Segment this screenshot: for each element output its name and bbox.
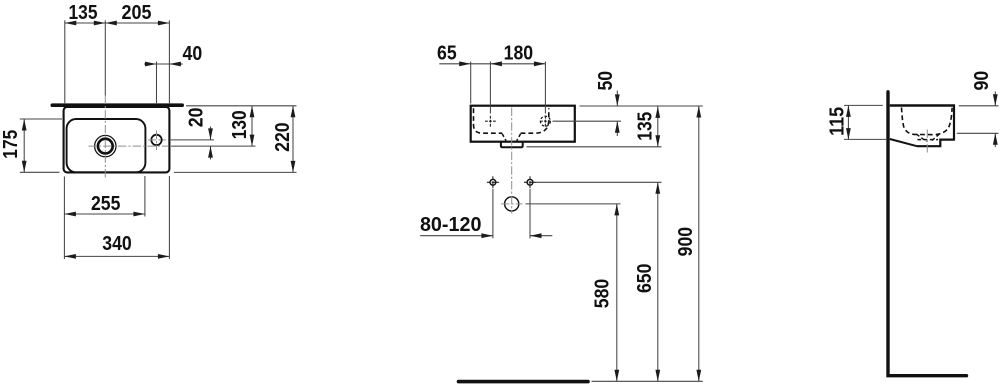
svg-text:255: 255 <box>91 192 121 215</box>
svg-text:340: 340 <box>102 232 132 255</box>
svg-text:80-120: 80-120 <box>420 213 482 236</box>
svg-text:220: 220 <box>271 122 294 152</box>
svg-text:175: 175 <box>0 130 22 159</box>
svg-text:205: 205 <box>122 1 152 24</box>
svg-text:20: 20 <box>184 108 207 128</box>
svg-text:50: 50 <box>594 71 617 91</box>
svg-text:135: 135 <box>69 1 98 24</box>
svg-text:130: 130 <box>228 110 251 139</box>
svg-text:135: 135 <box>634 112 657 141</box>
svg-text:115: 115 <box>826 107 849 136</box>
svg-text:900: 900 <box>674 227 697 257</box>
svg-text:90: 90 <box>970 71 993 91</box>
svg-text:580: 580 <box>590 279 613 309</box>
svg-text:40: 40 <box>183 42 203 65</box>
svg-text:65: 65 <box>437 41 457 64</box>
svg-text:180: 180 <box>504 41 534 64</box>
svg-text:650: 650 <box>633 264 656 294</box>
